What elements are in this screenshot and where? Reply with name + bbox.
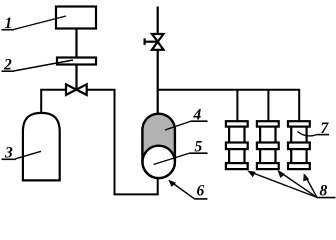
wire box2-valve (75, 65, 77, 90)
svg-text:6: 6 (197, 183, 205, 200)
filter stack F3 (7) (288, 121, 310, 169)
valve V2 (vertical, with stem) (145, 34, 164, 50)
label 5 (154, 139, 208, 165)
wire V2-vessel (157, 50, 159, 115)
filter stack F1 (226, 121, 248, 169)
label 2 (2, 57, 74, 74)
branch wire 1 (236, 90, 238, 121)
flow regulator 2 (block) (57, 58, 96, 65)
wire valve-downcomer (87, 90, 158, 195)
adsorber vessel 4 (gray capsule) (142, 114, 175, 179)
label 4 (165, 107, 208, 131)
vent line (top) (157, 7, 159, 35)
receiver circle 5 (143, 146, 175, 178)
wire cylinder-valve (41, 90, 66, 114)
label 3 (2, 145, 42, 162)
label 6 (with arrow to circle bottom) (168, 180, 207, 200)
branch wire 2 (267, 90, 269, 121)
valve V1 (horizontal bowtie) (66, 84, 87, 95)
manifold wire (158, 90, 300, 121)
filter stack F2 (257, 121, 279, 169)
label 8 (with three arrows) (247, 170, 335, 200)
wire box1-box2 (75, 29, 77, 58)
gas cylinder 3 (23, 113, 60, 180)
label 1 (2, 15, 67, 32)
device U1 (block 1) (56, 7, 96, 29)
label 7 (298, 120, 330, 137)
